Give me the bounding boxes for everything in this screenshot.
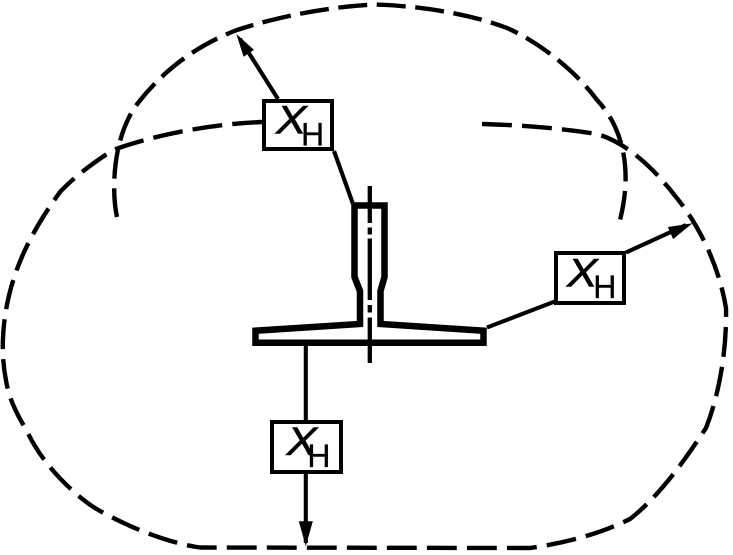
svg-text:H: H xyxy=(593,269,616,305)
svg-text:H: H xyxy=(301,116,324,152)
svg-text:H: H xyxy=(307,438,330,474)
